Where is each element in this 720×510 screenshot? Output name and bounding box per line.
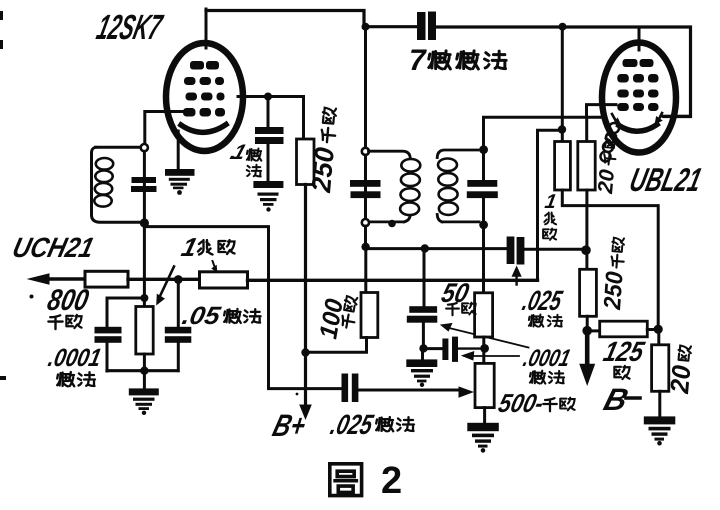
tube V2 grid row 3: [617, 103, 658, 111]
svg-text:20: 20: [594, 168, 619, 195]
speck near 800: [30, 295, 34, 299]
wire secondary tank vertical: [482, 118, 485, 180]
node junction 7pF-left: [362, 23, 370, 31]
ground detector: [406, 359, 437, 387]
wire C .0001 to bottom: [106, 343, 109, 371]
label UCH21: [9, 232, 97, 264]
wire ground stem: [421, 348, 424, 360]
resistor R1 1兆欧: [555, 142, 571, 191]
wire C .05 bottom: [177, 343, 180, 371]
label 1兆欧: [179, 232, 201, 262]
resistor R 250千欧 (bias): [580, 269, 597, 316]
tube V2 plate bar: [623, 59, 654, 67]
wire pot bottom: [143, 354, 146, 371]
svg-text:12SK7: 12SK7: [93, 7, 167, 46]
tube V2 UBL21 envelope: [602, 43, 676, 153]
label B+: [269, 408, 310, 443]
caption 圖 2: [330, 464, 362, 496]
svg-text:.0001: .0001: [521, 345, 574, 372]
wire R1 bottom L-run to right rail: [562, 190, 658, 326]
node ring IFT primary bottom: [362, 219, 369, 226]
speck top-left edge 2: [0, 40, 3, 49]
wire C .0001 right to 500K line: [458, 347, 484, 349]
wire UCH grid horizontal: [146, 227, 342, 389]
resistor R 800千欧: [85, 271, 128, 287]
tube V1 cathode stem: [177, 131, 180, 170]
wire line C corner up: [538, 130, 562, 280]
label 250千欧 rotated (screen): [306, 107, 343, 195]
label .0001微法 (left): [46, 344, 104, 372]
wire line A branch up into tube: [587, 105, 617, 118]
resistor R 1兆欧 grid stopper: [200, 272, 248, 288]
node junction B-: [582, 326, 592, 336]
speck left edge: [0, 376, 6, 380]
capacitor C .0001微法: [95, 327, 122, 343]
capacitor C .05微法: [165, 327, 192, 343]
wire 7pF right segment to UBL21 plate bracket: [436, 27, 691, 117]
svg-text:20: 20: [664, 363, 696, 395]
capacitor C .025微法 bottom: [342, 374, 359, 403]
wire screen corner down to R 250K: [302, 97, 305, 141]
ground pot: [129, 388, 159, 415]
label .1微法: [227, 140, 249, 163]
wire AVC line C left with arrow: [46, 277, 85, 280]
svg-text:UCH21: UCH21: [9, 232, 97, 264]
svg-text:.1: .1: [227, 140, 249, 163]
label UBL21: [626, 162, 705, 198]
capacitor C IFT primary: [350, 180, 381, 198]
wire 20 ohm to ground: [658, 391, 661, 417]
wire line B detector bus: [367, 247, 583, 251]
svg-text:B+: B+: [269, 408, 310, 443]
svg-text:UBL21: UBL21: [626, 162, 705, 198]
wire down to R 100K: [364, 247, 367, 293]
wire line A branch down to R2: [585, 117, 588, 142]
tube V1 plate bar: [190, 61, 219, 70]
wire tank vertical: [143, 152, 146, 221]
capacitor C .05微法 stem top: [177, 281, 180, 328]
node junction ground tap: [140, 367, 148, 375]
node junction L3 bottom: [479, 220, 488, 229]
label 50千欧: [439, 277, 473, 308]
resistor R 250千欧 (screen): [297, 139, 315, 185]
arrow label pointer .025 up: [515, 272, 517, 285]
capacitor C .0001微法 (detector): [442, 337, 458, 362]
wire V2 plate lead right: [663, 115, 691, 118]
svg-text:800: 800: [45, 284, 92, 317]
resistor R 100千欧: [361, 293, 378, 338]
node junction .1uF tap: [264, 93, 272, 101]
node junction line B start: [361, 243, 369, 251]
resistor R 500千欧: [475, 363, 494, 407]
svg-text:2: 2: [381, 460, 402, 502]
node junction 100K tap on B+ line: [301, 348, 309, 356]
resistor R 125欧: [600, 321, 648, 337]
tube V1 grid row 3: [183, 108, 225, 117]
label B-: [600, 382, 632, 417]
speck mid: [296, 393, 299, 396]
wire line C mid: [128, 278, 200, 281]
wire line C right of 1M: [248, 279, 538, 282]
tube V2 filament squiggle: [601, 123, 620, 162]
wire grid drop to coil: [143, 112, 146, 147]
wire C .1uF to ground: [267, 144, 270, 182]
node junction at 7pF drop: [558, 125, 566, 133]
wire left to C .0001: [107, 298, 144, 328]
resistor R 20欧: [652, 345, 669, 392]
speck top-left edge 1: [0, 11, 3, 20]
arrow pot wiper: [161, 267, 175, 296]
ground for C .1uF: [253, 181, 283, 212]
label 7微微法: [409, 44, 506, 77]
wire line A grid of UBL21: [484, 117, 602, 150]
label 100千欧 rotated: [314, 297, 349, 341]
arrow AVC left: [27, 273, 50, 285]
svg-text:.05: .05: [180, 302, 224, 330]
node junction L3 top: [479, 145, 488, 154]
wire 50K bottom: [482, 337, 485, 364]
inductor L1 outline: [92, 147, 141, 222]
wire to 125 ohm: [587, 329, 600, 332]
wire 250K to B- node: [586, 316, 589, 331]
capacitor C .1微法: [255, 127, 284, 144]
label 125欧: [600, 336, 648, 368]
node junction 50K/500K: [480, 344, 489, 353]
arrow B- down: [585, 331, 590, 366]
resistor R 50千欧: [475, 293, 493, 337]
label 12SK7: [93, 7, 167, 46]
arrow label pointer .0001: [474, 355, 520, 357]
label 1兆欧 vertical: [543, 191, 558, 213]
label 500-千欧: [496, 388, 548, 418]
node junction detector ground: [419, 344, 427, 352]
tube V2 cathode arc: [619, 125, 657, 132]
inductor L2 IFT primary coil: [369, 151, 411, 222]
tube V1 grid row 1: [184, 77, 224, 85]
inductor L1 top wire: [96, 146, 141, 149]
label 20千欧 rotated: [594, 134, 622, 196]
wire C .025 bottom right with arrow: [359, 389, 460, 392]
node junction L1 bottom: [140, 218, 149, 227]
wire to ground: [143, 371, 146, 390]
tube V2 grid row 1: [617, 74, 658, 83]
wire R2 bottom down: [585, 190, 588, 269]
svg-text:.025: .025: [327, 409, 377, 441]
wire primary tank vertical: [364, 155, 367, 219]
tube V2 diode arrow right: [658, 113, 663, 122]
tube V1 grid row 2: [186, 93, 225, 101]
inductor L3 IFT secondary coil: [437, 150, 479, 222]
arrow label pointer long: [447, 328, 529, 348]
node junction 7pF-right: [559, 23, 567, 31]
ground 500K: [467, 423, 499, 453]
wire 125 to right rail node: [647, 328, 658, 331]
node junction .0001 drop: [421, 244, 429, 252]
wire R100K bottom to B+ junction: [306, 338, 367, 353]
arrow pointer 1M label: [213, 261, 216, 268]
wire to line B node: [364, 226, 367, 246]
resistor R2 20千欧: [578, 142, 595, 191]
capacitor C .025微法 (line B): [507, 237, 525, 265]
inductor L1 loops: [94, 158, 113, 207]
tube V1 grid lead left: [145, 110, 186, 113]
ground 20 ohm: [644, 416, 676, 445]
tube V2 grid row 2: [617, 90, 658, 98]
wire rail to 20 ohm: [657, 329, 660, 345]
svg-text:250: 250: [599, 270, 629, 311]
potentiometer R 800K slider body: [136, 307, 153, 355]
label .025微法 (line B): [519, 285, 566, 317]
wire down to C .1uF: [267, 97, 270, 129]
wire R250K bottom to B+: [304, 185, 307, 407]
wire drop to diode load cap: [423, 249, 426, 307]
svg-text:500-: 500-: [496, 388, 548, 418]
wire cap to ground node: [422, 323, 425, 349]
node ring IFT primary top: [362, 148, 369, 155]
node junction right rail: [654, 325, 663, 334]
wire node to C .0001 (right): [424, 347, 444, 350]
capacitor C diode load: [407, 306, 438, 323]
svg-text:250: 250: [306, 146, 340, 194]
node junction .05 tap: [174, 275, 183, 284]
tube V1 cathode arc: [181, 125, 226, 133]
wire 7pF left segment: [366, 25, 419, 28]
wire IFT primary vertical: [364, 27, 367, 148]
tube V2 diode arrow left: [612, 114, 617, 123]
svg-text:7: 7: [409, 44, 427, 77]
svg-text:.025: .025: [519, 285, 566, 317]
node ring L1 top: [141, 144, 148, 151]
node junction cap tap: [140, 294, 148, 302]
arrow into 500K: [459, 386, 475, 397]
svg-text:1: 1: [543, 191, 558, 213]
node junction line B end: [581, 245, 591, 255]
tube V1 12SK7 envelope: [166, 43, 243, 151]
svg-text:.0001: .0001: [46, 344, 104, 372]
label 800千欧: [45, 284, 92, 317]
arrow B+ down: [299, 405, 312, 421]
capacitor C IFT secondary: [467, 180, 498, 198]
capacitor trimmer C1: [131, 177, 157, 192]
node junction L2 bottom: [388, 220, 396, 228]
svg-text:1: 1: [179, 232, 201, 262]
label 20欧 rotated: [664, 344, 698, 395]
tube V1 top stem: [205, 9, 208, 48]
label 250千欧 rotated (bias): [599, 237, 631, 311]
tube V2 top stem: [638, 28, 641, 51]
label .0001微法 (detector): [521, 345, 574, 372]
label .025微法 (bottom): [327, 409, 377, 441]
wire 500K to ground: [483, 408, 486, 424]
label .05微法: [180, 302, 224, 330]
wire secondary vertical lower: [482, 198, 485, 293]
wire 7pF junction down to R1: [561, 27, 564, 142]
tube V1 screen lead right: [238, 95, 304, 98]
capacitor C-7pF 7微微法: [417, 12, 436, 41]
ground cathode V1: [165, 169, 195, 195]
wire grid bus down through AVC line to pot: [143, 223, 146, 307]
wire bottom bus UCH: [107, 369, 178, 372]
svg-text:125: 125: [600, 336, 648, 368]
wire plate top 12SK7 to junction: [206, 11, 364, 28]
